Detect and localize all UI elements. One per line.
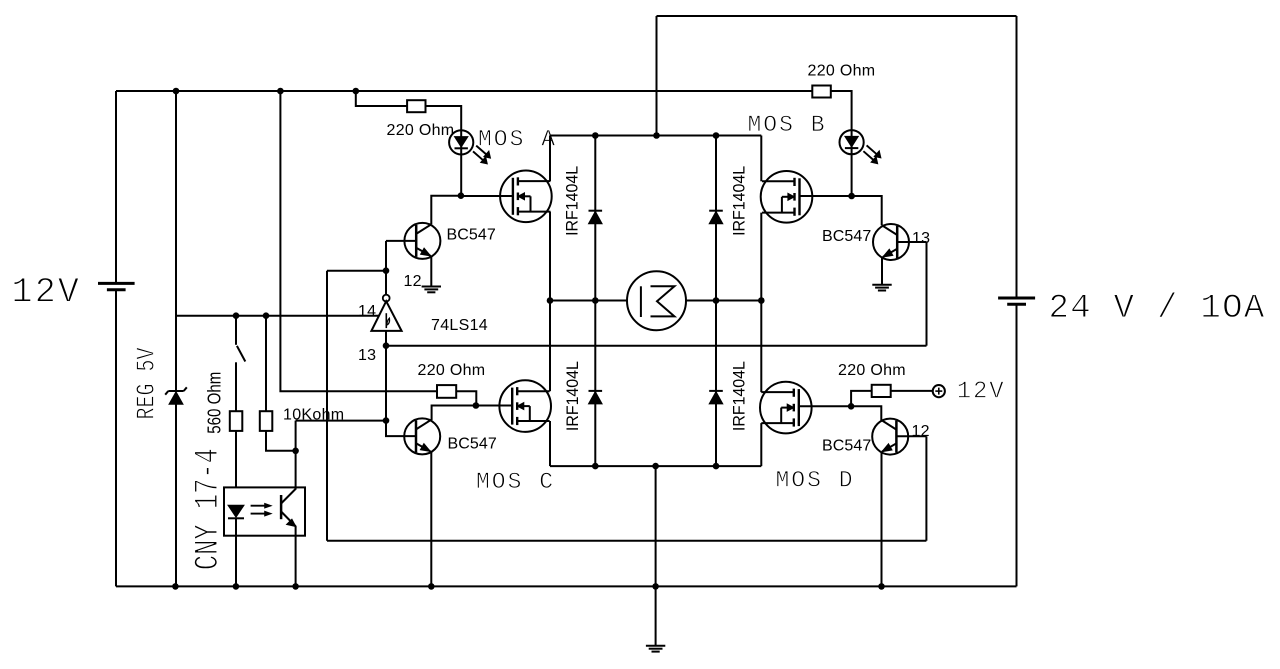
- wire motor rail right segment: [686, 300, 761, 302]
- opto phototransistor: [280, 495, 283, 519]
- svg-text:MOS D: MOS D: [776, 468, 855, 494]
- wire R1 to LED1: [426, 106, 462, 130]
- wire right column to MOS D drain: [760, 301, 762, 393]
- junction motor rail x595: [592, 297, 599, 304]
- wire inverter output to left column: [327, 270, 386, 272]
- inverter U1 74LS14 triangle: [371, 301, 401, 331]
- junction inverter output: [383, 267, 390, 274]
- resistor R1 220 Ohm: [407, 100, 425, 112]
- MOSFET Q2 MOS B (IRF1404L): [761, 171, 813, 223]
- MOSFET Q1 MOS A (IRF1404L): [500, 171, 552, 223]
- junction MOS A gate node: [458, 192, 465, 199]
- resistor R3 220 Ohm: [437, 385, 456, 398]
- resistor R5 560 Ohm: [230, 411, 243, 431]
- junction bridge top x716: [713, 132, 720, 139]
- diode D2a body diode upper-right: [715, 136, 717, 301]
- wire MOS A source to motor rail: [549, 212, 551, 301]
- junction MOS B gate node: [848, 193, 855, 200]
- junction opto collector node: [292, 448, 299, 455]
- wire 5V feed line y316: [176, 315, 386, 317]
- junction bridge bottom x716: [713, 463, 720, 470]
- resistor R2 220 Ohm: [812, 86, 831, 98]
- LED D2: [840, 130, 864, 154]
- svg-text:74LS14: 74LS14: [431, 317, 488, 334]
- svg-text:220 Ohm: 220 Ohm: [418, 362, 486, 379]
- wire gate node to BC547 D collector: [851, 406, 881, 421]
- svg-text:CNY 17-4: CNY 17-4: [190, 448, 228, 570]
- svg-text:220 Ohm: 220 Ohm: [387, 122, 455, 139]
- svg-text:BC547: BC547: [448, 436, 497, 453]
- MOSFET Q3 MOS C (IRF1404L): [499, 380, 551, 432]
- ground BC547 A: [422, 286, 441, 288]
- svg-text:IRF1404L: IRF1404L: [563, 361, 582, 431]
- svg-text:12: 12: [404, 273, 422, 290]
- opto internal LED: [228, 505, 244, 517]
- svg-text:BC547: BC547: [447, 227, 496, 244]
- wire gate node to BC547 B collector: [852, 196, 882, 225]
- transistor Q8 BC547 (MOS D driver): [872, 419, 908, 455]
- wire MOS A drain riser: [549, 136, 551, 182]
- opto coupling arrows: [251, 505, 266, 507]
- wire MOS D gate lead: [799, 405, 851, 407]
- battery BT1 12V: [98, 282, 135, 285]
- wire 10K node line y421: [296, 420, 386, 422]
- junction 10Kohm node x386: [383, 417, 390, 424]
- svg-text:12: 12: [912, 423, 930, 440]
- junction bridge bottom x595: [592, 463, 599, 470]
- MOSFET Q4 MOS D (IRF1404L): [760, 382, 812, 434]
- wire 10K upper lead: [265, 316, 267, 412]
- diode D4a body diode lower-right: [715, 301, 717, 467]
- diode D3a body diode lower-left: [594, 301, 596, 467]
- svg-text:220 Ohm: 220 Ohm: [808, 63, 876, 80]
- battery BT2 24V: [998, 297, 1035, 300]
- svg-text:REG 5V: REG 5V: [132, 347, 162, 419]
- junction top rail x280: [277, 88, 284, 95]
- resistor R6 10Kohm: [260, 411, 273, 431]
- wire MOS D source riser: [760, 423, 762, 466]
- wire MOS B gate lead: [800, 195, 851, 197]
- junction top rail x176: [173, 88, 180, 95]
- wire bottom ground rail: [116, 585, 1017, 587]
- junction ground rail x175: [172, 583, 179, 590]
- wire motor rail left segment: [550, 300, 627, 302]
- svg-text:220 Ohm: 220 Ohm: [838, 362, 906, 379]
- resistor R4 220 Ohm: [872, 385, 891, 397]
- wire REG 5V branch vertical: [175, 91, 177, 391]
- wire 24V battery bottom lead: [1016, 304, 1018, 586]
- wire BC547 D base riser: [925, 436, 927, 541]
- wire H-bridge bottom rail: [550, 465, 761, 467]
- transistor Q5 BC547 (MOS A driver): [404, 223, 440, 259]
- junction motor rail x716: [713, 297, 720, 304]
- svg-text:13: 13: [358, 347, 376, 364]
- wire MOS C source riser: [549, 421, 551, 466]
- svg-text:14: 14: [358, 303, 376, 320]
- wire switch upper lead: [235, 316, 237, 345]
- wire 12V battery bottom lead: [115, 290, 117, 587]
- wire gate node to BC547 A collector: [431, 196, 461, 225]
- wire gate node to BC547 C collector: [432, 406, 476, 421]
- opto LED anode lead: [235, 505, 237, 507]
- junction ground rail x881: [878, 583, 885, 590]
- wire opto collector to 10K node: [295, 421, 297, 451]
- wire MOS C gate lead: [476, 405, 512, 407]
- svg-text:IRF1404L: IRF1404L: [730, 361, 749, 431]
- ground main: [646, 645, 665, 647]
- junction MOS D gate node: [848, 403, 855, 410]
- wire bridge center to ground rail: [655, 466, 657, 586]
- wire BC547 B base lead: [897, 241, 927, 243]
- wire cross line y541 to BC547 D base: [327, 540, 926, 542]
- wire MOS A gate lead: [461, 195, 513, 197]
- svg-text:IRF1404L: IRF1404L: [730, 166, 749, 236]
- wire 12V top rail: [116, 90, 812, 92]
- wire LED2 to gate node: [851, 154, 853, 196]
- wire inverter input line y346: [386, 345, 927, 347]
- wire BC547 A emitter: [430, 256, 432, 287]
- svg-text:BC547: BC547: [822, 438, 871, 455]
- wire inverter output up: [385, 241, 387, 294]
- svg-text:BC547: BC547: [822, 228, 871, 245]
- svg-text:MOS B: MOS B: [748, 112, 827, 138]
- wire 560 Ohm to opto LED: [235, 431, 237, 506]
- diode D1a body diode upper-left: [594, 136, 596, 301]
- junction ground rail x656: [652, 583, 659, 590]
- transistor Q6 BC547 (MOS B driver): [873, 224, 909, 260]
- inverter output bubble: [383, 295, 390, 302]
- wire R4 to 12V terminal: [891, 390, 933, 392]
- wire MOS B drain riser: [760, 136, 762, 182]
- wire inverter base stub: [385, 331, 387, 346]
- svg-text:13: 13: [912, 230, 930, 247]
- optocoupler U2 CNY 17-4 box: [224, 487, 305, 535]
- junction inverter input: [383, 342, 390, 349]
- motor M1: [627, 271, 686, 330]
- wire opto LED cathode to ground rail: [235, 518, 237, 586]
- junction MOS C gate node: [473, 402, 480, 409]
- wire R2 to LED2: [831, 91, 852, 130]
- junction ground rail x296: [292, 583, 299, 590]
- wire BC547 C emitter to ground rail: [430, 451, 432, 586]
- wire top outer left drop to H-bridge: [656, 16, 658, 136]
- wire BC547 A base: [386, 240, 416, 242]
- svg-text:MOS A: MOS A: [478, 127, 557, 153]
- wire BC547 D base lead: [896, 435, 926, 437]
- terminal +12V: [933, 385, 945, 397]
- zener diode D5 REG 5V: [168, 390, 183, 392]
- ground BC547 B: [872, 284, 891, 286]
- wire 10K lower lead: [266, 431, 296, 451]
- wire 24V battery top lead: [1016, 16, 1018, 298]
- wire BC547 C base: [386, 421, 416, 437]
- wire top outer rail: [657, 15, 1017, 17]
- wire BC547 D emitter to ground rail: [881, 452, 883, 587]
- junction ground rail x431: [428, 583, 435, 590]
- junction bridge bottom x656: [652, 463, 659, 470]
- wire opto emitter to ground rail: [295, 526, 297, 586]
- svg-text:IRF1404L: IRF1404L: [562, 166, 581, 236]
- svg-text:12V: 12V: [957, 379, 1006, 406]
- wire zener to ground rail: [175, 404, 177, 586]
- wire ground stem: [655, 586, 657, 645]
- wire inverter input drop x386: [385, 346, 387, 421]
- wire left column x327 down: [326, 271, 328, 541]
- junction 10K branch: [263, 312, 270, 319]
- junction ground rail x236: [233, 583, 240, 590]
- junction motor rail right: [758, 297, 765, 304]
- junction motor rail left: [547, 297, 554, 304]
- svg-text:MOS C: MOS C: [476, 469, 555, 495]
- wire 220 Ohm A feed: [356, 91, 407, 106]
- svg-text:560 Ohm: 560 Ohm: [204, 372, 224, 434]
- junction bridge top x656: [653, 132, 660, 139]
- svg-text:12V: 12V: [12, 273, 82, 313]
- wire switch lower lead: [235, 362, 237, 411]
- inverter hysteresis symbol: [385, 313, 387, 328]
- wire 220 Ohm C feed from x280: [280, 91, 437, 391]
- wire H-bridge top rail: [550, 135, 761, 137]
- wire BC547 B emitter: [881, 257, 883, 285]
- switch S1 blade: [237, 346, 245, 362]
- wire left column to MOS C drain: [549, 301, 551, 392]
- wire R3 to gate node: [456, 391, 476, 405]
- LED D1: [449, 130, 473, 154]
- junction top rail x356: [353, 88, 360, 95]
- wire 12V battery top lead: [115, 91, 117, 283]
- wire MOS B source to motor rail: [760, 213, 762, 301]
- junction bridge top x595: [592, 132, 599, 139]
- svg-text:24 V / 1OA: 24 V / 1OA: [1049, 290, 1266, 328]
- wire gate node to R4: [851, 391, 872, 406]
- junction switch branch: [233, 312, 240, 319]
- wire LED1 to gate node: [460, 155, 462, 196]
- wire BC547 B base riser: [926, 242, 928, 346]
- transistor Q7 BC547 (MOS C driver): [404, 418, 440, 454]
